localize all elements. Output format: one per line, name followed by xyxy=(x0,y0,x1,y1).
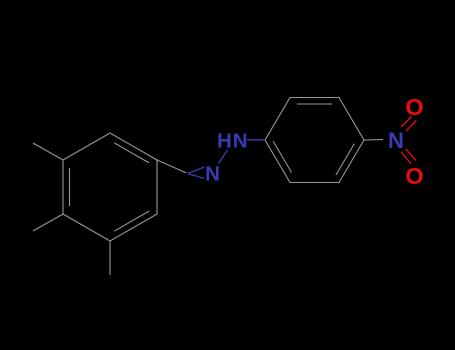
wire ring outline xyxy=(63,133,157,241)
right benzene ring xyxy=(265,98,364,183)
wire inner double bond lower-right edge xyxy=(336,144,355,176)
wire ring outline xyxy=(265,98,364,183)
wire NH to ring bond xyxy=(247,139,264,141)
wire inner double bond left edge xyxy=(69,168,71,206)
wire inner double bond bottom-right edge xyxy=(114,211,149,231)
wire ring to CH bond xyxy=(157,160,187,173)
wire methyl down xyxy=(109,241,111,275)
svg-text:HN: HN xyxy=(217,129,249,152)
wire N to NH bond xyxy=(219,150,228,164)
wire methyl up-left xyxy=(33,143,63,160)
wire inner double bond top-right edge xyxy=(114,143,149,163)
left benzene ring xyxy=(33,133,187,275)
C=N double bond wedge xyxy=(188,150,228,179)
wire inner double bond top edge xyxy=(297,103,332,105)
wire ring to nitro N bond xyxy=(364,139,383,142)
svg-text:O: O xyxy=(405,163,423,189)
wire methyl down-left xyxy=(33,214,63,231)
wire N=O double bond upper xyxy=(401,117,416,164)
svg-text:O: O xyxy=(405,94,423,120)
wire N=O double bond lower xyxy=(401,152,411,164)
wire inner double bond lower-left edge xyxy=(273,141,292,172)
svg-text:N: N xyxy=(205,163,220,186)
svg-text:N: N xyxy=(388,128,404,153)
